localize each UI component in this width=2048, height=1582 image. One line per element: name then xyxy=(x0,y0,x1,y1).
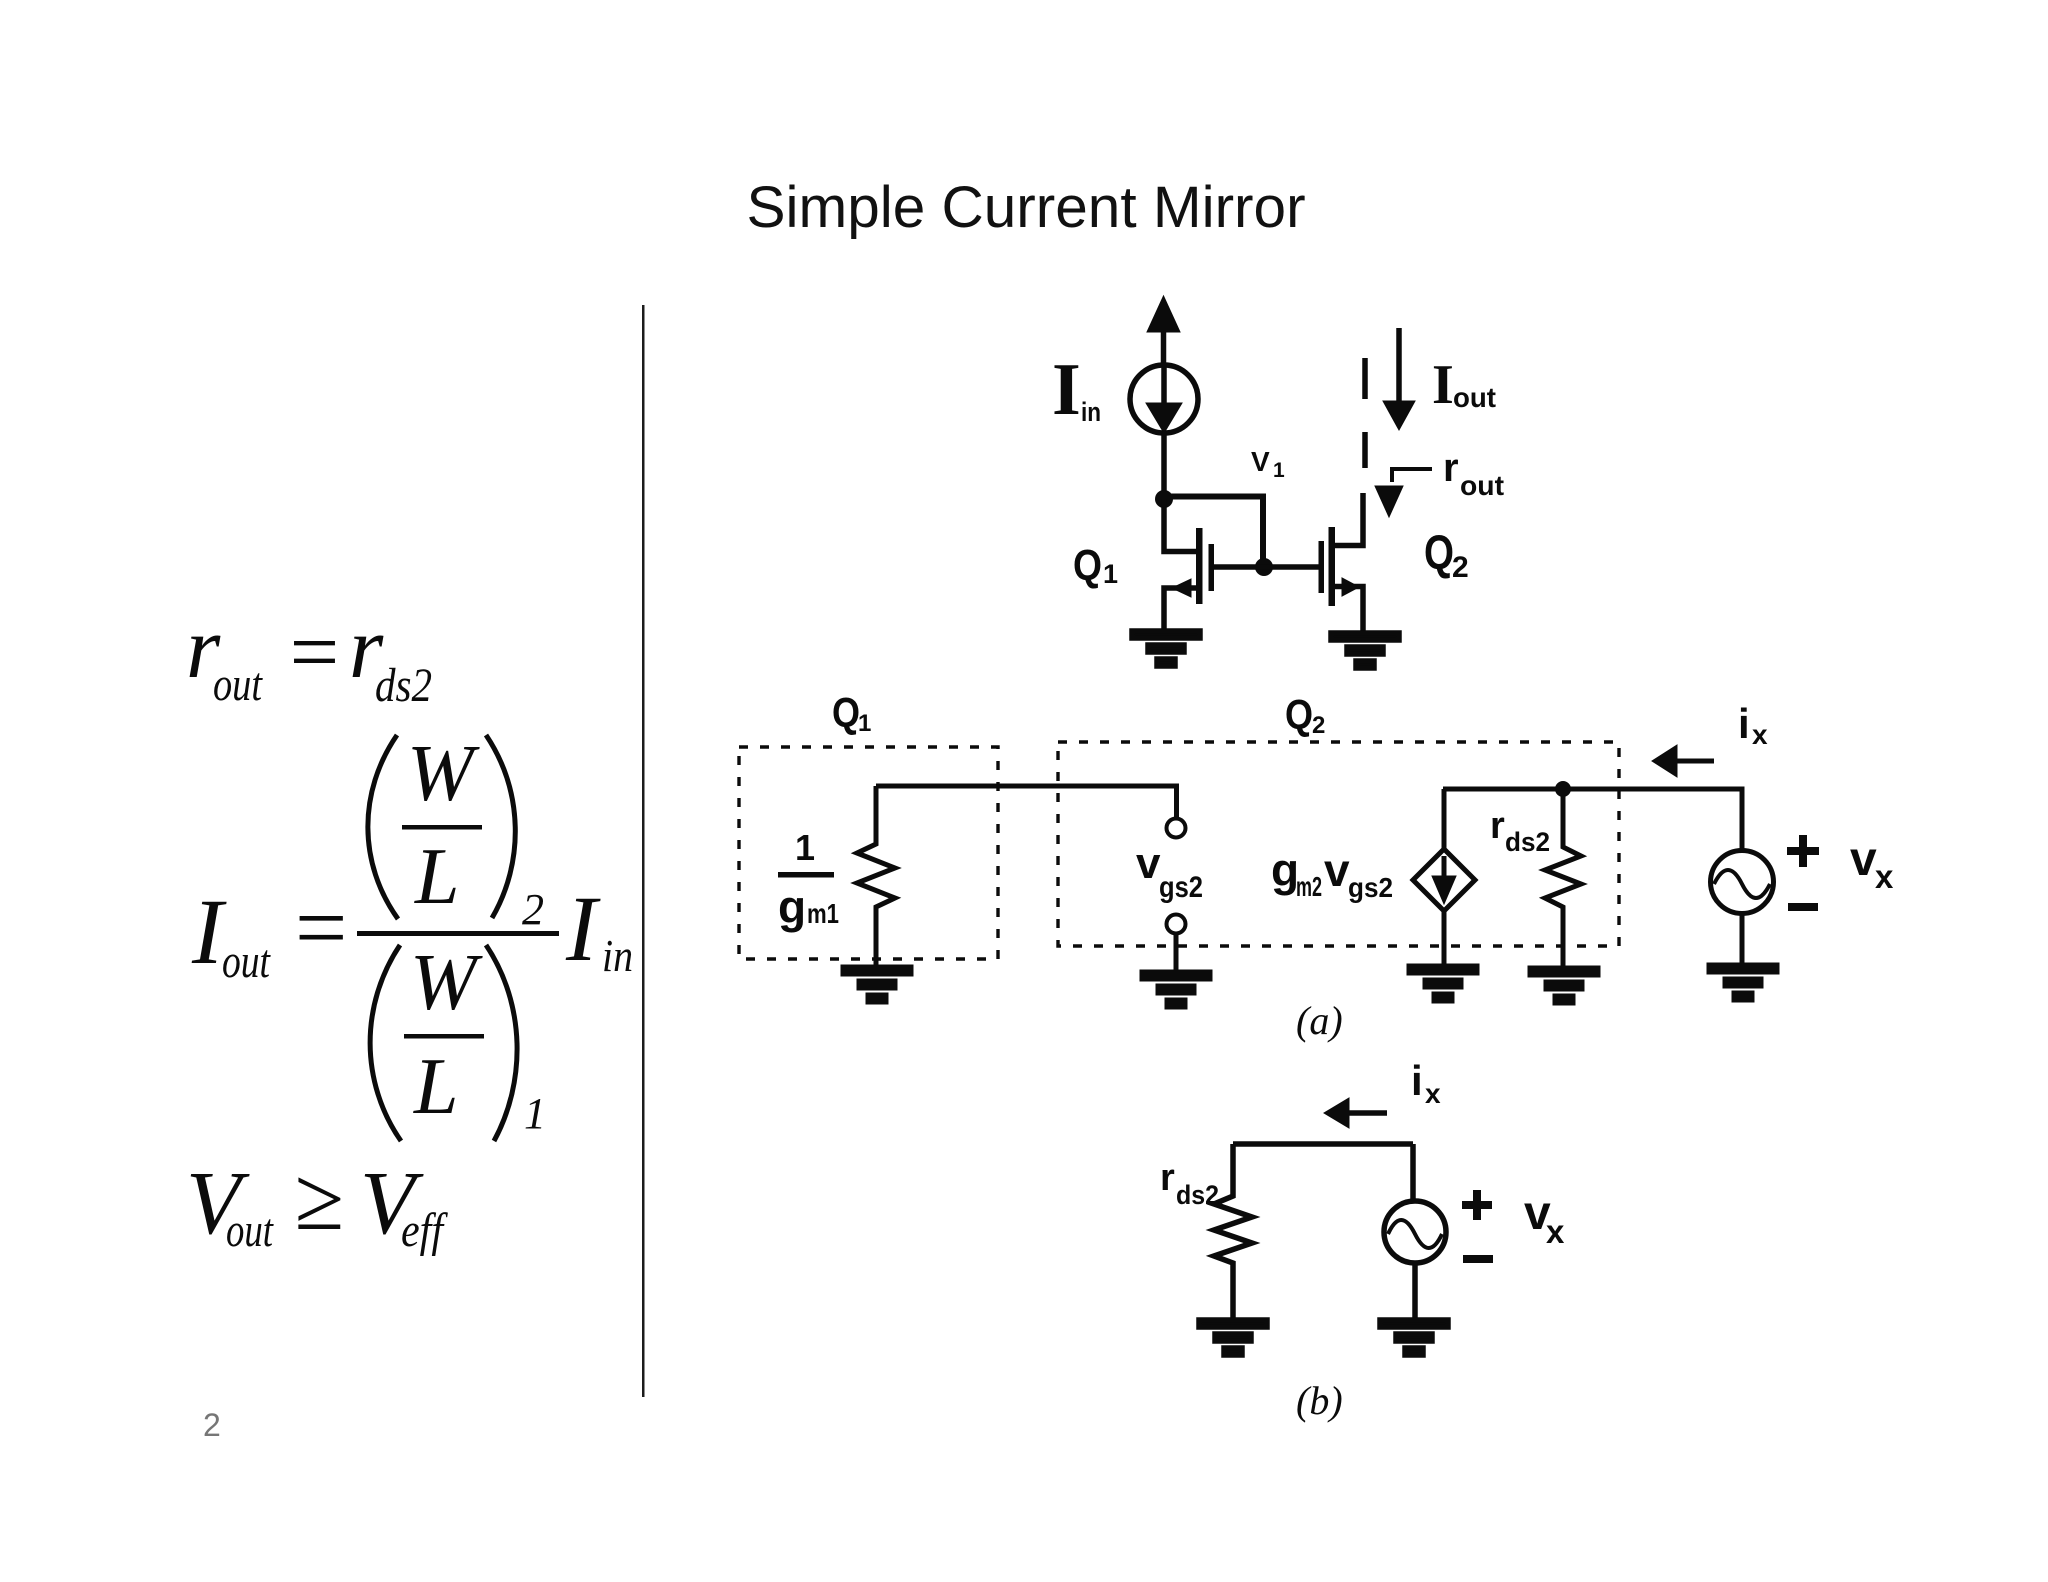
label I_in xyxy=(1052,349,1101,431)
label I_out xyxy=(1432,354,1496,416)
svg-text:1: 1 xyxy=(524,1089,546,1138)
ground 1/gm1 xyxy=(843,967,911,1002)
resistor rds2 (b) xyxy=(1214,1144,1252,1322)
formula V_out >= V_eff xyxy=(186,1150,448,1257)
wire resistor top to vgs2 port xyxy=(876,786,1177,818)
svg-text:=: = xyxy=(289,877,352,980)
Q1 dashed box xyxy=(739,747,998,959)
ground vgs2 xyxy=(1142,972,1210,1007)
svg-text:m1: m1 xyxy=(807,898,839,929)
divider line xyxy=(642,305,645,1397)
wire gate bus xyxy=(1213,564,1319,570)
svg-text:1: 1 xyxy=(858,710,871,737)
wire lower port to ground xyxy=(1174,934,1179,972)
wire current source to node xyxy=(1161,433,1167,500)
svg-text:ds2: ds2 xyxy=(1176,1180,1219,1210)
svg-text:i: i xyxy=(1411,1057,1423,1104)
svg-text:W: W xyxy=(407,730,480,818)
svg-text:x: x xyxy=(1425,1078,1441,1109)
svg-text:eff: eff xyxy=(401,1204,448,1257)
label gm2 vgs2 xyxy=(1271,844,1393,903)
svg-text:in: in xyxy=(602,930,633,981)
wire to vx (b) xyxy=(1410,1144,1416,1202)
svg-text:out: out xyxy=(226,1204,274,1257)
svg-text:out: out xyxy=(222,935,271,988)
resistor rds2 (a) xyxy=(1545,789,1581,968)
svg-text:out: out xyxy=(213,658,263,711)
svg-text:r: r xyxy=(1160,1157,1175,1199)
svg-text:(a): (a) xyxy=(1296,998,1343,1043)
dependent source gm2vgs2 diamond xyxy=(1413,849,1475,911)
gate node junction dot xyxy=(1255,558,1273,576)
vgs2 upper port circle xyxy=(1167,819,1186,838)
Q2 dashed box xyxy=(1058,742,1619,946)
wire diamond top xyxy=(1442,789,1447,849)
svg-text:1: 1 xyxy=(795,827,815,868)
r_out probe arrow xyxy=(1375,469,1432,517)
ground rds2 (a) xyxy=(1530,968,1598,1003)
svg-text:v: v xyxy=(1136,839,1161,888)
svg-text:Q: Q xyxy=(1424,527,1454,580)
ground vx (a) xyxy=(1709,965,1777,1000)
svg-text:i: i xyxy=(1738,700,1750,747)
top wire (b) xyxy=(1233,1141,1413,1147)
current source I_in arrow xyxy=(1147,296,1180,365)
svg-text:W: W xyxy=(410,939,483,1027)
plus sign (a) xyxy=(1787,835,1819,867)
current source inner arrow xyxy=(1146,367,1182,433)
I_out arrow xyxy=(1383,328,1415,430)
label i_x (b) xyxy=(1411,1057,1441,1109)
svg-text:V: V xyxy=(1251,446,1270,477)
node dot (a) xyxy=(1555,781,1571,797)
minus sign (b) xyxy=(1463,1255,1493,1263)
formula r_out = r_ds2 xyxy=(186,600,432,712)
svg-text:v: v xyxy=(1850,833,1877,886)
label vgs2 xyxy=(1136,839,1203,904)
ground diamond xyxy=(1409,966,1477,1001)
svg-text:r: r xyxy=(1443,446,1459,490)
svg-text:Q: Q xyxy=(1073,541,1102,590)
transistor Q2 xyxy=(1319,493,1364,634)
label i_x (a) xyxy=(1738,700,1768,750)
svg-text:g: g xyxy=(1271,844,1299,896)
svg-text:out: out xyxy=(1453,382,1496,413)
svg-text:x: x xyxy=(1752,719,1768,750)
ground Q1 xyxy=(1132,631,1200,666)
vgs2 lower port circle xyxy=(1167,915,1186,934)
source v_x circle (a) xyxy=(1711,851,1774,914)
svg-text:2: 2 xyxy=(1312,712,1325,739)
svg-text:I: I xyxy=(1432,354,1454,416)
svg-text:ds2: ds2 xyxy=(375,659,432,712)
svg-text:x: x xyxy=(1546,1213,1565,1250)
svg-text:Simple Current Mirror: Simple Current Mirror xyxy=(746,175,1305,240)
dashed output branch xyxy=(1362,358,1368,468)
svg-text:I: I xyxy=(1052,349,1081,431)
svg-text:=: = xyxy=(284,604,343,701)
sine wave (a) xyxy=(1714,870,1770,898)
svg-text:1: 1 xyxy=(1273,459,1285,482)
label rds2 (b) xyxy=(1160,1157,1219,1210)
label Q2 xyxy=(1424,527,1469,584)
wire node to gate corner xyxy=(1164,497,1263,568)
svg-text:2: 2 xyxy=(522,885,544,934)
svg-text:1: 1 xyxy=(1103,559,1118,589)
label r_out xyxy=(1443,446,1504,501)
minus sign (a) xyxy=(1788,903,1818,911)
i_x arrow (b) xyxy=(1324,1098,1387,1128)
svg-text:Q: Q xyxy=(832,689,860,736)
i_x arrow (a) xyxy=(1652,745,1714,777)
svg-text:m2: m2 xyxy=(1296,871,1322,902)
svg-text:gs2: gs2 xyxy=(1348,872,1393,903)
ground vx (b) xyxy=(1380,1320,1448,1355)
svg-text:L: L xyxy=(414,833,460,921)
label 1/gm1 xyxy=(778,827,839,933)
top wire (a) xyxy=(1443,789,1742,851)
label v_x (b) xyxy=(1524,1187,1565,1250)
label Q2 (a) xyxy=(1285,691,1325,739)
plus sign (b) xyxy=(1462,1190,1492,1220)
svg-text:gs2: gs2 xyxy=(1159,871,1203,904)
svg-text:r: r xyxy=(1490,805,1505,847)
current source I_in circle xyxy=(1130,365,1198,433)
label V1 xyxy=(1251,446,1285,482)
label rds2 (a) xyxy=(1490,805,1550,857)
svg-text:in: in xyxy=(1081,397,1101,427)
svg-text:I: I xyxy=(565,878,601,981)
ground Q2 xyxy=(1331,633,1399,668)
svg-text:2: 2 xyxy=(1452,551,1469,584)
label v_x (a) xyxy=(1850,833,1894,895)
wire vx to ground (a) xyxy=(1740,914,1745,965)
svg-text:≥: ≥ xyxy=(294,1150,343,1249)
transistor Q1 xyxy=(1164,499,1214,634)
wire diamond bottom xyxy=(1442,911,1447,966)
svg-text:(b): (b) xyxy=(1296,1378,1343,1423)
sine wave (b) xyxy=(1388,1220,1442,1248)
label Q1 (a) xyxy=(832,689,871,737)
svg-text:g: g xyxy=(778,881,806,933)
ground rds2 (b) xyxy=(1199,1320,1267,1355)
svg-text:x: x xyxy=(1875,858,1894,895)
svg-text:ds2: ds2 xyxy=(1505,827,1550,857)
svg-text:out: out xyxy=(1460,470,1504,501)
svg-text:2: 2 xyxy=(203,1407,221,1443)
wire vx to ground (b) xyxy=(1412,1263,1418,1320)
label Q1 xyxy=(1073,541,1118,590)
resistor 1/gm1 xyxy=(857,786,895,967)
formula I_out = (W/L)2/(W/L)1 I_in xyxy=(191,730,633,1141)
svg-text:Q: Q xyxy=(1285,691,1313,738)
svg-text:v: v xyxy=(1324,844,1350,896)
node V1 junction dot xyxy=(1155,490,1173,508)
source v_x circle (b) xyxy=(1384,1201,1446,1263)
svg-text:L: L xyxy=(413,1043,459,1131)
